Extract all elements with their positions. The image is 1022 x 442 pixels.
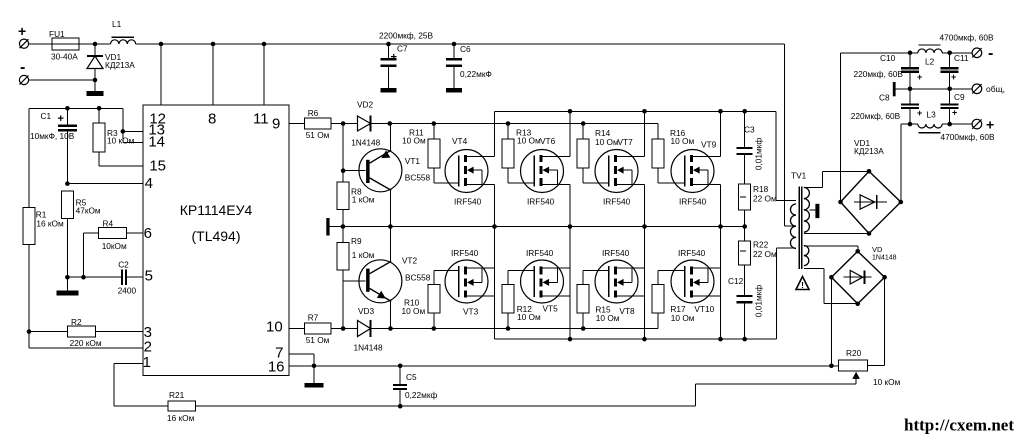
svg-text:C11: C11	[954, 53, 969, 63]
svg-text:VT5: VT5	[543, 304, 559, 314]
svg-text:0,01мкф: 0,01мкф	[754, 285, 764, 317]
svg-text:КР1114ЕУ4: КР1114ЕУ4	[180, 202, 253, 218]
svg-text:FU1: FU1	[49, 29, 65, 39]
svg-text:10 Ом: 10 Ом	[402, 306, 426, 316]
svg-text:R18: R18	[753, 184, 769, 194]
svg-text:2: 2	[144, 339, 152, 356]
svg-text:22 Ом: 22 Ом	[753, 249, 777, 259]
svg-text:BC558: BC558	[405, 272, 431, 282]
svg-text:IRF540: IRF540	[527, 197, 555, 207]
svg-text:220мкф, 60В: 220мкф, 60В	[851, 111, 901, 121]
svg-text:VD: VD	[872, 245, 883, 254]
svg-text:R20: R20	[846, 348, 862, 358]
svg-text:VT2: VT2	[402, 256, 418, 266]
svg-text:1N4148: 1N4148	[351, 138, 380, 148]
svg-text:10 Ом: 10 Ом	[671, 136, 695, 146]
svg-text:C1: C1	[41, 111, 52, 121]
svg-text:16 кОм: 16 кОм	[167, 413, 195, 423]
svg-text:C10: C10	[880, 53, 896, 63]
svg-text:30-40A: 30-40A	[51, 51, 78, 61]
svg-text:R4: R4	[103, 218, 114, 228]
svg-text:10 Ом: 10 Ом	[517, 312, 541, 322]
svg-text:IRF540: IRF540	[526, 248, 554, 258]
svg-text:+: +	[391, 52, 397, 64]
svg-text:VD2: VD2	[357, 100, 374, 110]
svg-text:VT8: VT8	[619, 306, 635, 316]
svg-text:10 Ом: 10 Ом	[402, 136, 426, 146]
svg-text:R7: R7	[308, 313, 319, 323]
svg-text:!: !	[801, 280, 804, 290]
svg-text:10мкФ, 10В: 10мкФ, 10В	[30, 131, 75, 141]
svg-text:C7: C7	[397, 44, 408, 54]
svg-text:10 Ом: 10 Ом	[517, 136, 541, 146]
svg-text:10 Ом: 10 Ом	[671, 313, 695, 323]
svg-text:C8: C8	[879, 93, 890, 103]
svg-text:16: 16	[268, 359, 285, 376]
svg-text:L1: L1	[112, 19, 122, 29]
svg-text:+: +	[952, 108, 957, 118]
svg-text:4700мкф, 60В: 4700мкф, 60В	[940, 33, 994, 43]
svg-text:2200мкф, 25В: 2200мкф, 25В	[379, 31, 433, 41]
svg-text:1N4148: 1N4148	[354, 343, 383, 353]
svg-text:0,22мкФ: 0,22мкФ	[460, 69, 492, 79]
svg-text:C6: C6	[460, 44, 471, 54]
svg-text:R6: R6	[308, 108, 319, 118]
svg-text:IRF540: IRF540	[451, 248, 479, 258]
svg-text:1 кОм: 1 кОм	[352, 195, 375, 205]
svg-text:0,01мкф: 0,01мкф	[754, 138, 764, 170]
svg-text:BC558: BC558	[405, 173, 431, 183]
svg-text:общ,: общ,	[986, 84, 1005, 94]
svg-text:-: -	[988, 45, 993, 62]
svg-text:C2: C2	[118, 260, 129, 270]
svg-text:http://cxem.net: http://cxem.net	[904, 416, 1014, 435]
svg-text:47кОм: 47кОм	[76, 206, 101, 216]
svg-text:6: 6	[144, 225, 152, 242]
svg-text:(TL494): (TL494)	[191, 228, 240, 244]
svg-text:C3: C3	[744, 125, 755, 135]
svg-text:2400: 2400	[118, 285, 137, 295]
svg-text:+: +	[917, 108, 922, 118]
svg-text:L2: L2	[925, 57, 935, 67]
svg-text:R22: R22	[753, 240, 769, 250]
svg-text:IRF540: IRF540	[603, 197, 631, 207]
svg-text:10 Ом: 10 Ом	[595, 137, 619, 147]
svg-text:R9: R9	[351, 236, 362, 246]
svg-text:IRF540: IRF540	[602, 248, 630, 258]
svg-text:C9: C9	[954, 92, 965, 102]
svg-text:R21: R21	[169, 390, 185, 400]
svg-text:C5: C5	[406, 372, 417, 382]
svg-text:VT10: VT10	[694, 304, 714, 314]
svg-text:VT4: VT4	[452, 136, 468, 146]
svg-text:КД213А: КД213А	[105, 60, 135, 70]
svg-text:10: 10	[266, 319, 283, 336]
svg-text:51 Ом: 51 Ом	[306, 335, 330, 345]
svg-text:9: 9	[272, 116, 280, 133]
svg-text:14: 14	[148, 134, 165, 151]
svg-text:VT6: VT6	[540, 136, 556, 146]
svg-text:22 Ом: 22 Ом	[753, 194, 777, 204]
svg-text:10 кОм: 10 кОм	[873, 377, 901, 387]
svg-text:VT9: VT9	[701, 140, 717, 150]
svg-text:+: +	[58, 113, 64, 125]
svg-text:1 кОм: 1 кОм	[352, 250, 375, 260]
svg-text:11: 11	[253, 111, 269, 128]
svg-text:+: +	[951, 72, 956, 82]
svg-text:4700мкф, 60В: 4700мкф, 60В	[941, 132, 995, 142]
svg-text:TV1: TV1	[791, 171, 807, 181]
svg-text:+: +	[917, 72, 922, 82]
svg-text:VD3: VD3	[358, 306, 375, 316]
svg-text:1: 1	[143, 354, 151, 371]
svg-text:220мкф, 60В: 220мкф, 60В	[854, 69, 904, 79]
svg-text:+: +	[986, 117, 994, 133]
svg-text:IRF540: IRF540	[678, 248, 706, 258]
svg-text:L3: L3	[927, 110, 937, 120]
svg-text:VT1: VT1	[405, 156, 421, 166]
svg-text:IRF540: IRF540	[679, 197, 707, 207]
svg-text:4: 4	[145, 175, 153, 192]
svg-text:+: +	[18, 23, 26, 39]
svg-text:1N4148: 1N4148	[872, 254, 897, 261]
svg-text:VT3: VT3	[463, 307, 479, 317]
svg-text:10 Ом: 10 Ом	[596, 313, 620, 323]
svg-text:5: 5	[145, 268, 153, 285]
svg-text:10 кОм: 10 кОм	[107, 135, 135, 145]
svg-text:-: -	[20, 59, 25, 76]
svg-text:220 кОм: 220 кОм	[70, 338, 102, 348]
svg-text:R2: R2	[71, 317, 82, 327]
svg-text:8: 8	[208, 111, 216, 128]
svg-text:15: 15	[149, 158, 166, 175]
svg-text:КД213А: КД213А	[854, 146, 884, 156]
svg-text:IRF540: IRF540	[454, 197, 482, 207]
svg-text:VT7: VT7	[618, 137, 634, 147]
svg-text:10кОм: 10кОм	[102, 241, 127, 251]
svg-text:C12: C12	[728, 276, 744, 286]
svg-text:51 Ом: 51 Ом	[306, 130, 330, 140]
svg-text:16 кОм: 16 кОм	[36, 218, 64, 228]
svg-text:0,22мкф: 0,22мкф	[405, 390, 437, 400]
